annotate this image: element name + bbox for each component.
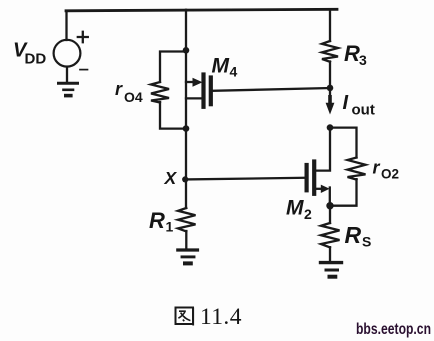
svg-text:O4: O4 <box>124 89 143 105</box>
svg-text:4: 4 <box>230 64 238 80</box>
svg-text:R: R <box>149 208 165 233</box>
svg-text:M: M <box>286 197 304 220</box>
svg-text:R: R <box>344 41 360 66</box>
svg-text:M: M <box>212 54 230 77</box>
svg-text:I: I <box>343 92 349 114</box>
svg-text:bbs.eetop.cn: bbs.eetop.cn <box>356 321 431 338</box>
svg-text:11.4: 11.4 <box>200 304 242 330</box>
svg-text:2: 2 <box>304 206 312 222</box>
svg-text:r: r <box>373 158 381 178</box>
svg-text:3: 3 <box>359 52 367 68</box>
svg-text:X: X <box>164 168 178 188</box>
svg-text:DD: DD <box>25 51 47 68</box>
svg-text:S: S <box>362 234 371 250</box>
svg-text:r: r <box>115 79 123 99</box>
svg-text:out: out <box>352 102 375 119</box>
svg-text:O2: O2 <box>381 167 399 182</box>
svg-text:1: 1 <box>166 219 174 235</box>
svg-text:R: R <box>345 222 362 248</box>
